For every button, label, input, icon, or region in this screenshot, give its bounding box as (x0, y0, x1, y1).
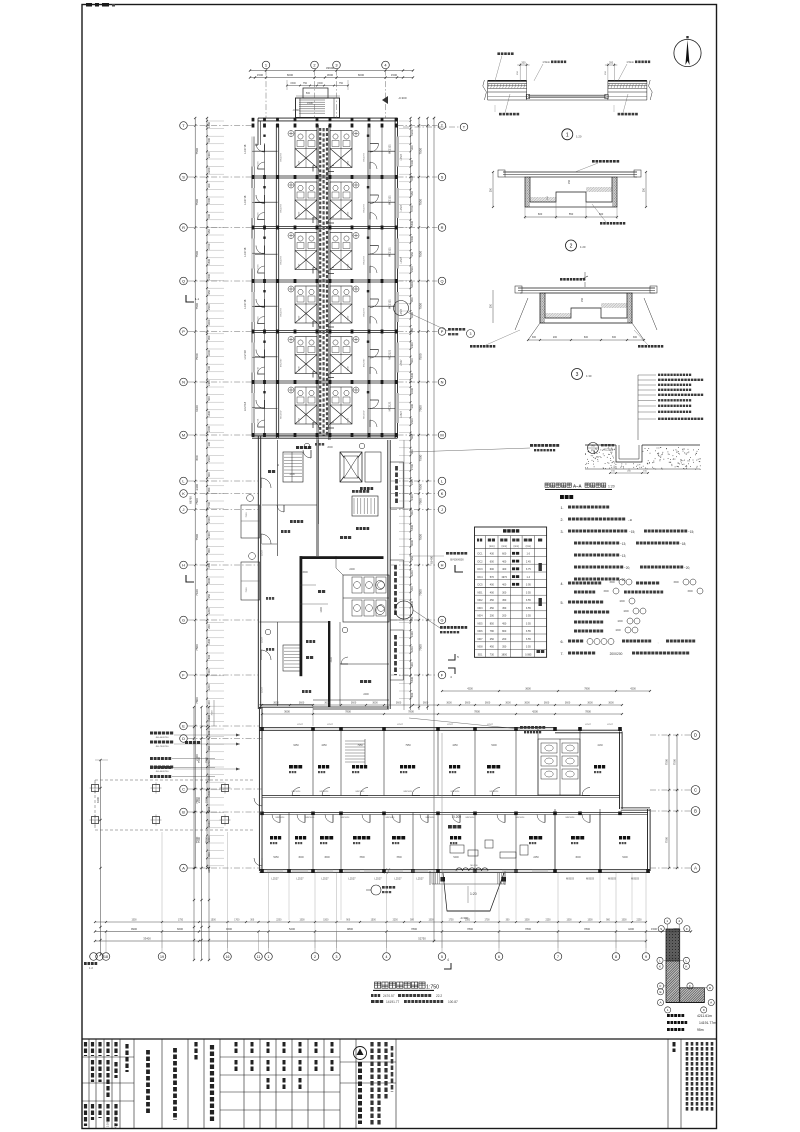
svg-text:2250: 2250 (545, 920, 551, 922)
svg-text:LC2718: LC2718 (243, 195, 247, 205)
svg-text:ND5: ND5 (477, 622, 483, 625)
svg-text:33900: 33900 (326, 66, 335, 70)
svg-text:LC2718: LC2718 (243, 144, 247, 154)
svg-text:2300: 2300 (197, 796, 201, 803)
svg-text:950: 950 (207, 593, 211, 598)
svg-text:−13;: −13; (620, 554, 626, 558)
svg-text:1400: 1400 (207, 669, 211, 675)
svg-text:1: 1 (667, 1008, 669, 1012)
svg-text:1500: 1500 (410, 220, 414, 226)
svg-text:3600: 3600 (372, 702, 378, 705)
svg-text:1500: 1500 (410, 266, 414, 272)
svg-text:MC2121: MC2121 (388, 349, 392, 359)
svg-text:4200: 4200 (630, 688, 636, 691)
svg-text:3600: 3600 (299, 702, 305, 705)
svg-text:E: E (182, 723, 185, 728)
svg-text:N: N (441, 379, 444, 384)
svg-text:600: 600 (584, 336, 589, 339)
svg-text:7500: 7500 (246, 512, 248, 518)
svg-text:L2527: L2527 (297, 724, 304, 726)
svg-text:300: 300 (207, 183, 211, 188)
svg-text:600: 600 (410, 692, 414, 697)
svg-text:3.95: 3.95 (526, 584, 531, 587)
svg-text:MC2121: MC2121 (388, 195, 392, 205)
svg-text:LC2718: LC2718 (243, 299, 247, 309)
svg-text:7500: 7500 (195, 199, 199, 206)
svg-text:300: 300 (410, 403, 414, 408)
svg-text:2017.11.30: 2017.11.30 (114, 1115, 118, 1129)
svg-text:5: 5 (441, 955, 443, 959)
svg-text:L2527: L2527 (321, 877, 329, 881)
svg-text:1:30: 1:30 (586, 374, 592, 378)
svg-text:1970: 1970 (501, 576, 507, 579)
svg-text:9900: 9900 (131, 927, 137, 931)
svg-text:ND3: ND3 (477, 607, 483, 610)
svg-text:2200: 2200 (410, 388, 414, 394)
svg-text:600: 600 (502, 553, 507, 556)
svg-text:H: H (182, 562, 185, 567)
svg-text:1500: 1500 (603, 590, 609, 593)
svg-text:2200: 2200 (207, 426, 211, 432)
svg-text:R: R (182, 225, 185, 230)
svg-text:1500: 1500 (587, 920, 593, 922)
svg-text:J: J (183, 507, 185, 512)
svg-text:3200: 3200 (410, 570, 414, 576)
svg-text:730: 730 (490, 653, 495, 656)
svg-text:22.2: 22.2 (436, 994, 442, 998)
svg-text:1500: 1500 (410, 676, 414, 682)
svg-text:7800: 7800 (525, 927, 531, 931)
svg-text:6: 6 (498, 955, 500, 959)
svg-text:570: 570 (490, 576, 495, 579)
svg-text:−15;: −15; (629, 530, 635, 534)
svg-text:350: 350 (502, 646, 507, 649)
svg-text:7500: 7500 (665, 836, 669, 843)
svg-text:(mm): (mm) (526, 546, 532, 548)
svg-text:MC2707: MC2707 (364, 307, 366, 316)
svg-text:1750: 1750 (178, 920, 184, 922)
svg-text:250: 250 (490, 638, 495, 641)
svg-text:2400: 2400 (207, 532, 211, 538)
svg-text:7500: 7500 (419, 498, 423, 505)
svg-text:2250: 2250 (276, 920, 282, 922)
svg-text:2: 2 (314, 955, 316, 959)
svg-text:M0503: M0503 (608, 877, 616, 881)
svg-text:4: 4 (678, 919, 680, 923)
svg-text:L2527: L2527 (400, 411, 403, 418)
svg-text:MC2121: MC2121 (388, 401, 392, 411)
svg-text:L2527: L2527 (400, 204, 403, 211)
svg-text:950: 950 (410, 555, 414, 560)
svg-text:7500: 7500 (195, 353, 199, 360)
svg-text:3000: 3000 (575, 856, 581, 859)
svg-text:2300: 2300 (205, 796, 209, 803)
svg-text:7800: 7800 (474, 710, 480, 714)
svg-text:1700: 1700 (484, 920, 490, 922)
svg-text:3.55: 3.55 (526, 607, 531, 610)
svg-text:MC2707: MC2707 (281, 152, 283, 161)
svg-text:JM+750X750: JM+750X750 (156, 746, 170, 748)
svg-text:−15;: −15; (688, 530, 694, 534)
svg-text:MW1024: MW1024 (516, 817, 526, 819)
svg-text:MC2121: MC2121 (388, 144, 392, 154)
svg-text:BY600X600: BY600X600 (450, 559, 464, 562)
svg-text:2400: 2400 (207, 274, 211, 280)
svg-text:1: 1 (666, 919, 668, 923)
svg-text:300: 300 (532, 336, 537, 339)
svg-text:ND6: ND6 (477, 630, 483, 633)
svg-text:-0.200: -0.200 (452, 815, 461, 819)
svg-text:1500: 1500 (410, 524, 414, 530)
svg-text:780: 780 (490, 630, 495, 633)
svg-text:1500: 1500 (317, 82, 323, 85)
svg-text:1.4: 1.4 (527, 576, 531, 579)
svg-text:A–A: A–A (573, 484, 582, 489)
svg-text:DC2: DC2 (477, 560, 483, 563)
svg-text:1500: 1500 (299, 417, 301, 423)
svg-text:Q: Q (182, 278, 185, 283)
svg-text:1800: 1800 (501, 653, 507, 656)
svg-text:4130: 4130 (597, 744, 603, 747)
svg-text:1:20: 1:20 (580, 245, 586, 249)
svg-text:1.5mm: 1.5mm (542, 61, 550, 64)
svg-text:4200: 4200 (673, 927, 679, 931)
svg-text:1400: 1400 (207, 380, 211, 386)
svg-text:1600: 1600 (623, 610, 629, 613)
svg-text:4200: 4200 (467, 688, 473, 691)
svg-text:7500: 7500 (419, 405, 423, 412)
svg-text:3200: 3200 (207, 608, 211, 614)
svg-text:F: F (686, 927, 688, 931)
svg-text:P: P (182, 329, 185, 334)
svg-text:LC2718: LC2718 (258, 161, 260, 169)
svg-text:2: 2 (313, 62, 315, 67)
svg-text:1500: 1500 (673, 581, 679, 584)
svg-text:4450: 4450 (321, 744, 327, 747)
svg-text:1500: 1500 (330, 657, 333, 663)
svg-text:9600: 9600 (226, 927, 232, 931)
svg-text:950: 950 (410, 191, 414, 196)
svg-text:300: 300 (410, 662, 414, 667)
svg-text:5200: 5200 (289, 927, 295, 931)
svg-text:D: D (694, 733, 697, 738)
svg-text:2.: 2. (561, 518, 564, 522)
svg-text:9: 9 (703, 1008, 705, 1012)
svg-text:1500: 1500 (207, 517, 211, 523)
svg-text:450: 450 (502, 622, 507, 625)
svg-text:1700: 1700 (234, 920, 240, 922)
svg-text:1500: 1500 (348, 263, 350, 269)
svg-text:L2527: L2527 (397, 724, 404, 726)
svg-text:6100: 6100 (195, 405, 199, 412)
svg-text:3.55: 3.55 (526, 599, 531, 602)
svg-text:52750: 52750 (418, 937, 426, 941)
svg-text:L2527: L2527 (447, 724, 454, 726)
svg-text:1: 1 (566, 132, 569, 138)
svg-text:3000: 3000 (410, 281, 414, 287)
svg-text:1.5mm: 1.5mm (626, 61, 634, 64)
svg-text:200: 200 (553, 336, 558, 339)
svg-text:1500: 1500 (410, 479, 414, 485)
svg-text:ND1: ND1 (477, 591, 483, 594)
svg-text:300: 300 (612, 336, 617, 339)
svg-text:MC2707: MC2707 (281, 255, 283, 264)
svg-text:1500: 1500 (299, 315, 301, 321)
svg-text:1500: 1500 (609, 581, 615, 584)
svg-text:L: L (659, 959, 661, 963)
svg-text:6.: 6. (561, 640, 564, 644)
svg-text:MC2121: MC2121 (388, 247, 392, 257)
svg-text:−13;: −13; (620, 542, 626, 546)
svg-text:200: 200 (207, 624, 211, 629)
svg-text:3.55: 3.55 (526, 630, 531, 633)
svg-text:Q: Q (440, 278, 443, 283)
svg-text:550: 550 (569, 212, 574, 216)
svg-text:1500: 1500 (299, 160, 301, 166)
svg-text:2200: 2200 (410, 129, 414, 135)
svg-text:1:2: 1:2 (89, 966, 93, 970)
svg-text:9: 9 (645, 955, 647, 959)
svg-text:3000: 3000 (410, 540, 414, 546)
svg-text:5.: 5. (561, 601, 564, 605)
svg-text:7.: 7. (561, 652, 564, 656)
svg-text:-0.300: -0.300 (292, 109, 300, 112)
svg-text:9800: 9800 (347, 927, 353, 931)
svg-text:3600: 3600 (608, 702, 614, 705)
svg-text:MC2707: MC2707 (281, 358, 283, 367)
svg-text:7500: 7500 (246, 587, 248, 593)
svg-text:950: 950 (410, 251, 414, 256)
svg-text:1500: 1500 (465, 920, 471, 922)
svg-text:950: 950 (207, 229, 211, 234)
svg-text:1600: 1600 (619, 600, 625, 603)
svg-text:B: B (694, 809, 697, 814)
svg-text:L2527: L2527 (400, 308, 403, 315)
svg-text:3600: 3600 (544, 702, 550, 705)
svg-text:1500: 1500 (687, 590, 693, 593)
svg-text:6600: 6600 (177, 927, 183, 931)
svg-text:1500: 1500 (131, 920, 137, 922)
svg-text:L2527: L2527 (262, 686, 264, 693)
svg-text:1500: 1500 (428, 920, 434, 922)
svg-text:LC2718: LC2718 (243, 350, 247, 360)
svg-text:600: 600 (410, 434, 414, 439)
svg-text:14191.77m: 14191.77m (699, 1021, 716, 1025)
svg-text:450: 450 (502, 599, 507, 602)
svg-text:JM+400X750: JM+400X750 (156, 737, 170, 739)
svg-text:2: 2 (570, 244, 573, 250)
svg-text:3.75: 3.75 (526, 568, 531, 571)
svg-text:LC2718: LC2718 (243, 247, 247, 257)
svg-text:7800: 7800 (584, 688, 590, 691)
svg-text:K: K (441, 491, 444, 496)
svg-text:3600: 3600 (396, 702, 402, 705)
svg-text:16: 16 (226, 955, 230, 959)
svg-text:500: 500 (306, 92, 311, 95)
svg-text:MW1024: MW1024 (566, 817, 576, 819)
svg-text:1600: 1600 (617, 620, 623, 623)
svg-text:7800: 7800 (195, 697, 199, 704)
svg-text:ND4: ND4 (477, 615, 483, 618)
svg-text:4200: 4200 (532, 710, 538, 714)
svg-text:100.87: 100.87 (448, 1000, 458, 1004)
svg-text:1: 1 (265, 62, 267, 67)
svg-text:850: 850 (490, 622, 495, 625)
svg-text:11: 11 (257, 955, 261, 959)
svg-text:600: 600 (207, 472, 211, 477)
svg-text:3.55: 3.55 (526, 646, 531, 649)
svg-text:400: 400 (502, 560, 507, 563)
svg-text:1500: 1500 (211, 920, 217, 922)
svg-text:M: M (440, 432, 443, 437)
svg-text:1500: 1500 (410, 160, 414, 166)
svg-text:950: 950 (207, 335, 211, 340)
svg-text:1400: 1400 (289, 473, 295, 476)
svg-text:MC2707: MC2707 (364, 410, 366, 419)
svg-text:3600: 3600 (524, 702, 530, 705)
svg-text:500: 500 (207, 396, 211, 401)
svg-text:1500: 1500 (207, 258, 211, 264)
svg-text:600: 600 (410, 175, 414, 180)
svg-text:450: 450 (490, 599, 495, 602)
svg-text:3000: 3000 (207, 319, 211, 325)
svg-text:−1Ⅰ: −1Ⅰ (628, 518, 632, 522)
svg-text:MC2707: MC2707 (281, 410, 283, 419)
svg-text:7950: 7950 (357, 744, 363, 747)
svg-text:500: 500 (207, 654, 211, 659)
svg-text:950: 950 (410, 449, 414, 454)
svg-text:MW1024: MW1024 (404, 791, 414, 793)
svg-text:2700: 2700 (410, 205, 414, 211)
svg-text:3600: 3600 (565, 702, 571, 705)
svg-text:7: 7 (557, 955, 559, 959)
svg-text:2700: 2700 (207, 243, 211, 249)
svg-text:8: 8 (615, 955, 617, 959)
svg-text:200: 200 (410, 586, 414, 591)
svg-text:3600: 3600 (485, 702, 491, 705)
svg-text:DC1: DC1 (477, 553, 483, 556)
svg-text:18: 18 (104, 955, 108, 959)
svg-text:7800: 7800 (467, 927, 473, 931)
svg-text:3000: 3000 (298, 856, 304, 859)
svg-text:1:20: 1:20 (576, 134, 582, 138)
svg-text:7800: 7800 (411, 927, 417, 931)
svg-text:L2527: L2527 (585, 724, 592, 726)
svg-text:7500: 7500 (419, 148, 423, 155)
svg-text:800: 800 (502, 630, 507, 633)
svg-text:MW1024: MW1024 (320, 791, 330, 793)
svg-text:950: 950 (410, 510, 414, 515)
svg-text:S: S (182, 174, 185, 179)
svg-text:7500: 7500 (419, 303, 423, 310)
svg-text:3600: 3600 (324, 702, 330, 705)
svg-text:1500: 1500 (207, 198, 211, 204)
svg-text:L2527: L2527 (348, 877, 356, 881)
svg-text:MC2707: MC2707 (364, 203, 366, 212)
svg-text:1500: 1500 (299, 211, 301, 217)
svg-text:200: 200 (502, 615, 507, 618)
svg-text:7800: 7800 (396, 856, 402, 859)
svg-text:200: 200 (207, 365, 211, 370)
svg-text:1750: 1750 (448, 920, 454, 922)
svg-text:300: 300 (633, 336, 638, 339)
svg-text:L2527: L2527 (416, 877, 424, 881)
svg-text:1500: 1500 (290, 82, 296, 85)
svg-text:2200: 2200 (207, 167, 211, 173)
svg-text:600: 600 (490, 568, 495, 571)
svg-text:MW1024: MW1024 (341, 817, 351, 819)
svg-text:1400: 1400 (207, 152, 211, 158)
svg-text:−20.: −20. (620, 578, 626, 582)
svg-text:250: 250 (568, 179, 571, 184)
svg-text:3600: 3600 (423, 702, 429, 705)
svg-text:A: A (182, 865, 185, 870)
svg-text:200: 200 (410, 327, 414, 332)
svg-text:600: 600 (207, 213, 211, 218)
svg-text:N: N (182, 379, 185, 384)
svg-text:500: 500 (410, 616, 414, 621)
svg-text:-0.300: -0.300 (398, 96, 407, 100)
svg-text:250: 250 (581, 297, 584, 302)
svg-text:0.085: 0.085 (525, 653, 532, 656)
svg-text:1:20: 1:20 (470, 892, 477, 896)
svg-text:3600: 3600 (446, 702, 452, 705)
svg-text:1400: 1400 (207, 122, 211, 128)
svg-text:9450: 9450 (293, 744, 299, 747)
svg-text:750: 750 (339, 82, 344, 85)
svg-text:R: R (441, 225, 444, 230)
svg-text:4.: 4. (561, 582, 564, 586)
svg-text:4: 4 (447, 958, 449, 962)
svg-text:450: 450 (502, 607, 507, 610)
svg-text:JM+400X750: JM+400X750 (156, 771, 170, 773)
svg-text:1500: 1500 (323, 920, 329, 922)
svg-text:1-1: 1-1 (195, 297, 200, 301)
svg-text:MC2707: MC2707 (281, 307, 283, 316)
svg-text:C: C (694, 788, 697, 793)
svg-text:7500: 7500 (419, 644, 423, 651)
svg-text:7500: 7500 (665, 758, 669, 765)
svg-text:(mm): (mm) (514, 546, 520, 548)
svg-text:MC2707: MC2707 (364, 358, 366, 367)
svg-text:1400: 1400 (410, 631, 414, 637)
svg-text:430: 430 (490, 553, 495, 556)
svg-text:1500: 1500 (307, 101, 313, 105)
svg-text:#DZ2008: #DZ2008 (603, 449, 614, 452)
svg-text:1500: 1500 (348, 211, 350, 217)
svg-text:1500: 1500 (410, 418, 414, 424)
svg-text:350: 350 (643, 187, 646, 192)
svg-text:2250: 2250 (393, 920, 399, 922)
svg-text:450: 450 (490, 646, 495, 649)
svg-text:1600: 1600 (615, 629, 621, 632)
svg-text:200X200: 200X200 (610, 652, 623, 656)
svg-text:500: 500 (410, 358, 414, 363)
svg-text:4211.61m: 4211.61m (697, 1014, 712, 1018)
svg-text:400: 400 (490, 591, 495, 594)
svg-text:L2527: L2527 (262, 549, 264, 556)
svg-text:95m: 95m (697, 1028, 704, 1032)
svg-text:DC3: DC3 (477, 568, 483, 571)
svg-text:S: S (441, 174, 444, 179)
svg-text:300: 300 (410, 145, 414, 150)
svg-text:7500: 7500 (195, 644, 199, 651)
svg-text:1500: 1500 (391, 73, 398, 77)
svg-text:DC4: DC4 (477, 576, 483, 579)
svg-text:6600: 6600 (287, 73, 294, 77)
svg-text:2200: 2200 (207, 684, 211, 690)
svg-text:3600: 3600 (525, 688, 531, 691)
